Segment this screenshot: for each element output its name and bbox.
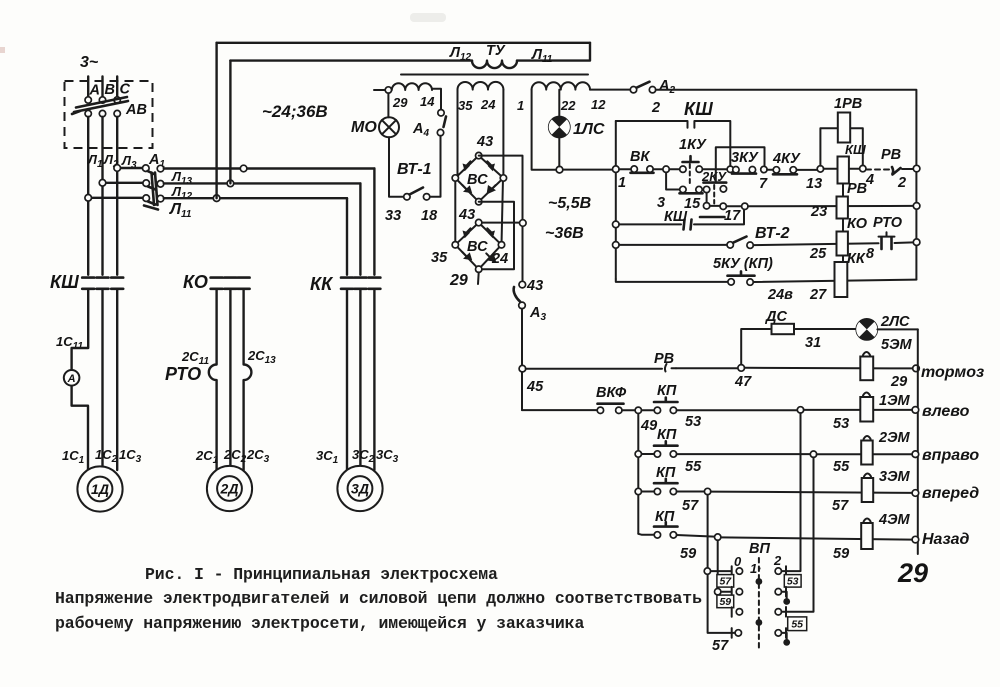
VP right contact 4 bbox=[775, 630, 781, 636]
svg-text:ВТ-1: ВТ-1 bbox=[397, 161, 432, 178]
relay coil 1RV bbox=[838, 113, 850, 143]
switch A3 blade bbox=[514, 287, 520, 302]
svg-text:53: 53 bbox=[685, 414, 701, 430]
resistor DS branch riser bbox=[741, 329, 770, 365]
switch A4 bbox=[438, 110, 444, 116]
contact RTO thermal bbox=[882, 238, 892, 250]
switch A3 lower terminal bbox=[519, 302, 526, 309]
switch VT-2 bbox=[727, 242, 733, 248]
rung3 wire bbox=[726, 205, 741, 207]
svg-text:ВКФ: ВКФ bbox=[596, 385, 627, 401]
57 rung wire bbox=[677, 491, 705, 493]
svg-text:~5,5В: ~5,5В bbox=[548, 195, 591, 212]
relay coil 5KU bbox=[835, 262, 848, 297]
wire phase B stub bbox=[101, 77, 103, 97]
VP right contact 3 bbox=[775, 609, 781, 615]
svg-text:КП: КП bbox=[657, 383, 677, 399]
rung3 wire to right rail bbox=[748, 205, 913, 207]
contact 1KU bbox=[680, 166, 686, 172]
wire KK col2 bbox=[359, 289, 361, 470]
svg-text:КШ: КШ bbox=[50, 272, 79, 292]
contact VKF bbox=[597, 407, 603, 413]
wire DC positive rail bbox=[479, 156, 523, 281]
svg-text:5КУ (КП): 5КУ (КП) bbox=[713, 256, 773, 272]
svg-text:ВК: ВК bbox=[630, 149, 650, 165]
rung1 wire bbox=[653, 168, 663, 170]
wire phase C stub bbox=[116, 77, 118, 97]
wire 59 drop bbox=[717, 540, 719, 588]
svg-text:ВС: ВС bbox=[467, 239, 488, 255]
svg-text:3С1: 3С1 bbox=[316, 448, 339, 466]
svg-text:12: 12 bbox=[591, 97, 606, 112]
VP right contact 1 bbox=[775, 568, 781, 574]
svg-text:4ЭМ: 4ЭМ bbox=[878, 512, 910, 528]
relay coil KK bbox=[837, 232, 848, 256]
svg-text:59: 59 bbox=[719, 596, 731, 608]
wire L13 horizontal bbox=[164, 167, 375, 169]
contact KP (57 rung) bbox=[654, 488, 660, 494]
wire MO branch bbox=[388, 93, 403, 197]
svg-text:2: 2 bbox=[773, 553, 782, 568]
svg-text:55: 55 bbox=[685, 459, 702, 475]
svg-text:57: 57 bbox=[719, 576, 732, 588]
wire L11 horizontal bbox=[164, 197, 347, 199]
lamp 2LS bbox=[856, 319, 877, 340]
scan smudge bbox=[410, 13, 446, 22]
boxed label 57 bbox=[717, 575, 734, 588]
wire bridge2 bottom stub bbox=[477, 272, 480, 284]
svg-text:43: 43 bbox=[526, 278, 543, 294]
wire link L3 to A1 pole1 bbox=[121, 167, 143, 169]
svg-text:РВ: РВ bbox=[654, 351, 674, 367]
rung4 wire to right rail bbox=[753, 242, 913, 245]
svg-text:22: 22 bbox=[560, 98, 576, 113]
svg-text:КК: КК bbox=[847, 251, 866, 267]
wire riser to top bus Л12 bbox=[215, 43, 217, 198]
rectifier VS bridge 2 bbox=[452, 219, 505, 272]
switch AB dashed enclosure bbox=[65, 81, 153, 148]
transformer TU core line bbox=[401, 74, 588, 76]
wire 2KU riser bracket bbox=[716, 147, 765, 182]
boxed label 53 bbox=[784, 575, 801, 588]
svg-text:2: 2 bbox=[651, 100, 660, 116]
svg-text:2ЭМ: 2ЭМ bbox=[878, 430, 910, 446]
coil 1EM bbox=[863, 393, 870, 396]
svg-text:КП: КП bbox=[655, 509, 675, 525]
contact 2KU bbox=[720, 186, 726, 192]
contact KP (59 rung) bbox=[638, 533, 654, 536]
coil 4EM bbox=[864, 519, 871, 522]
svg-text:РТО: РТО bbox=[873, 215, 903, 231]
relay coil KO bbox=[837, 197, 848, 219]
svg-text:29: 29 bbox=[392, 95, 408, 110]
svg-text:53: 53 bbox=[833, 416, 849, 432]
switch AB lower contacts bbox=[85, 110, 91, 116]
59 rung wire bbox=[677, 535, 715, 537]
svg-text:17: 17 bbox=[724, 208, 741, 224]
svg-text:2С1: 2С1 bbox=[195, 448, 219, 466]
wire top bus Л12 bbox=[217, 42, 590, 44]
tormoz rung wire to 47 bbox=[676, 367, 738, 369]
wire phase A stub bbox=[87, 77, 89, 97]
svg-text:2КУ: 2КУ bbox=[701, 169, 727, 184]
svg-text:КП: КП bbox=[657, 427, 677, 443]
svg-text:53: 53 bbox=[787, 576, 799, 588]
contact 3KU bbox=[733, 167, 739, 173]
svg-text:КШ: КШ bbox=[845, 142, 866, 157]
svg-text:29: 29 bbox=[897, 558, 928, 588]
wire bridge bottoms link bbox=[479, 202, 514, 270]
junction 49 bbox=[622, 409, 635, 411]
svg-text:45: 45 bbox=[526, 379, 544, 395]
wire link L1 to A1 pole3 bbox=[92, 197, 144, 199]
winding 35-24 bbox=[458, 82, 504, 90]
rung5 wire to right rail bbox=[753, 280, 916, 282]
wire L3 vertical bbox=[116, 117, 118, 275]
boxed label 59 bbox=[717, 595, 734, 608]
svg-text:1: 1 bbox=[618, 175, 626, 191]
VP cam dashed axis bbox=[758, 558, 760, 648]
wire KSh col2 bbox=[101, 289, 103, 470]
svg-text:29: 29 bbox=[449, 272, 468, 289]
contact RV on tormoz rung bbox=[665, 364, 676, 372]
svg-text:5ЭМ: 5ЭМ bbox=[881, 337, 912, 353]
53 rung wire bbox=[677, 409, 798, 411]
control box top edge with KSh contact gap bbox=[616, 121, 731, 166]
motor 3D bbox=[337, 466, 382, 511]
tormoz rung wire to right rail bbox=[745, 367, 913, 370]
edge mark bbox=[0, 47, 5, 53]
contact KP (53 rung) bbox=[642, 409, 655, 411]
switch VT-1 bbox=[404, 194, 410, 200]
svg-text:2С13: 2С13 bbox=[247, 348, 276, 366]
svg-text:1ЭМ: 1ЭМ bbox=[879, 393, 910, 409]
wire KK col3 drop bbox=[373, 169, 375, 275]
resistor DS bbox=[772, 324, 795, 334]
VP right contact 2 bbox=[775, 589, 781, 595]
contactor KO main contacts bbox=[211, 278, 250, 289]
svg-text:КК: КК bbox=[310, 274, 334, 294]
wire 2LS to right rail 2 bbox=[877, 328, 917, 330]
svg-text:1ЛС: 1ЛС bbox=[573, 121, 605, 138]
mechanical link 2KU dashed bbox=[713, 185, 715, 204]
svg-text:КО: КО bbox=[847, 216, 868, 232]
svg-text:23: 23 bbox=[810, 204, 827, 220]
right rail 2 bbox=[917, 329, 919, 554]
switch AB blade bbox=[74, 101, 128, 112]
svg-text:МО: МО bbox=[351, 119, 377, 136]
svg-text:0: 0 bbox=[734, 554, 742, 569]
wire 57 drop bbox=[708, 495, 736, 633]
svg-text:1С3: 1С3 bbox=[119, 447, 142, 465]
switch AB upper contacts bbox=[85, 97, 91, 103]
switch A1 fixed contacts bbox=[157, 165, 164, 172]
svg-text:3~: 3~ bbox=[80, 54, 99, 71]
svg-text:Рис. I - Принципиальная электр: Рис. I - Принципиальная электросхема bbox=[145, 565, 498, 584]
svg-text:2ЛС: 2ЛС bbox=[880, 314, 910, 330]
wire KO col3 with RTO heater bbox=[244, 289, 252, 470]
contact 4KU bbox=[767, 169, 773, 171]
motor 2D bbox=[207, 466, 252, 511]
contact RV (time) dashed on rung1 bbox=[866, 169, 891, 171]
svg-text:влево: влево bbox=[922, 403, 970, 420]
wire bridge2 top link bbox=[479, 222, 520, 224]
rung1 wire to 13 bbox=[797, 169, 818, 171]
svg-text:2: 2 bbox=[897, 175, 906, 191]
contact 3-15 bbox=[680, 186, 686, 192]
rung5 wire (24v) bbox=[616, 279, 728, 282]
svg-text:49: 49 bbox=[640, 418, 657, 434]
VP left contact 1 bbox=[711, 566, 732, 576]
svg-text:57: 57 bbox=[682, 498, 699, 514]
wire KO col1 with RTO heater bbox=[209, 289, 217, 470]
wire A2 to right rail bbox=[656, 90, 917, 280]
svg-text:1КУ: 1КУ bbox=[679, 137, 707, 153]
svg-text:43: 43 bbox=[458, 207, 475, 223]
wire link L2 to A1 pole2 bbox=[106, 182, 143, 184]
svg-text:55: 55 bbox=[791, 619, 803, 631]
svg-text:1С1: 1С1 bbox=[62, 448, 85, 466]
junction on rung2 bbox=[703, 186, 709, 192]
rung1 wire bbox=[702, 168, 727, 170]
svg-text:24в: 24в bbox=[767, 287, 793, 303]
wire 45 down to VKF rung corner bbox=[521, 372, 523, 410]
svg-text:29: 29 bbox=[890, 374, 907, 390]
svg-text:С: С bbox=[120, 82, 131, 98]
wire winding left leg to bottom wire bbox=[532, 90, 556, 170]
svg-text:14: 14 bbox=[420, 94, 435, 109]
svg-text:3ЭМ: 3ЭМ bbox=[879, 469, 910, 485]
svg-text:Назад: Назад bbox=[922, 531, 970, 548]
svg-text:ВТ-2: ВТ-2 bbox=[755, 225, 790, 242]
wire KK col1 bbox=[346, 289, 348, 470]
rectifier VS bridge 1 bbox=[452, 152, 507, 204]
relay coil column vertical (hidden behind coils) bbox=[842, 172, 844, 280]
KP ladder vertical bbox=[637, 414, 639, 534]
svg-text:вперед: вперед bbox=[922, 485, 979, 502]
rung1 wire bbox=[619, 168, 631, 170]
coil 2EM bbox=[864, 436, 871, 439]
wire AC rail left (35) bbox=[455, 90, 457, 245]
svg-text:7: 7 bbox=[759, 176, 768, 192]
svg-text:РВ: РВ bbox=[847, 181, 867, 197]
svg-text:А2: А2 bbox=[658, 78, 675, 96]
rung1 wire 13 to 4 bbox=[824, 168, 860, 170]
svg-text:КШ: КШ bbox=[684, 99, 713, 119]
wire L12 horizontal bbox=[164, 182, 361, 184]
svg-text:КП: КП bbox=[656, 465, 676, 481]
svg-text:43: 43 bbox=[476, 134, 493, 150]
svg-text:КШ: КШ bbox=[664, 209, 688, 225]
svg-text:3С3: 3С3 bbox=[376, 447, 399, 465]
wire A3 down to node 45 bbox=[521, 309, 523, 366]
svg-text:А3: А3 bbox=[529, 305, 546, 323]
contactor KK main contacts bbox=[341, 278, 380, 289]
svg-text:1Д: 1Д bbox=[91, 481, 109, 497]
svg-text:1С2: 1С2 bbox=[95, 447, 118, 465]
wire KK col2 drop bbox=[359, 183, 361, 274]
junction riser bus2 on L12 bbox=[227, 180, 234, 187]
contact KP (55 rung) bbox=[642, 453, 655, 455]
svg-text:18: 18 bbox=[421, 208, 438, 224]
VKF rung wire bbox=[522, 409, 597, 411]
svg-text:В: В bbox=[105, 82, 115, 98]
svg-text:РВ: РВ bbox=[881, 147, 901, 163]
svg-text:13: 13 bbox=[806, 176, 822, 192]
svg-text:55: 55 bbox=[833, 459, 850, 475]
svg-text:24: 24 bbox=[480, 97, 496, 112]
svg-text:33: 33 bbox=[385, 208, 401, 224]
VP left contact 2 bbox=[721, 587, 732, 597]
svg-text:тормоз: тормоз bbox=[921, 364, 984, 381]
inductor TU primary bumps bbox=[472, 61, 517, 69]
wire bottom wire to left rail bbox=[563, 169, 612, 171]
wire DS to lamp 2LS bbox=[794, 328, 856, 330]
lamp 1LS bbox=[549, 90, 570, 167]
svg-text:Л11: Л11 bbox=[531, 47, 553, 65]
svg-text:1: 1 bbox=[517, 98, 524, 113]
wire KSh-contact branch (rung2b) bbox=[619, 223, 681, 225]
VP left contact 4 bar bbox=[731, 628, 733, 638]
svg-text:ТУ: ТУ bbox=[486, 43, 506, 59]
svg-text:А: А bbox=[89, 83, 100, 99]
switch A1 blade bar bbox=[152, 173, 155, 206]
svg-text:АВ: АВ bbox=[125, 102, 147, 118]
contact 17 bbox=[703, 203, 709, 209]
rung3 drop from rung2 bbox=[706, 193, 708, 203]
contactor KSh main contacts bbox=[82, 278, 123, 289]
svg-text:35: 35 bbox=[431, 250, 448, 266]
wire KSh col3 bbox=[116, 289, 118, 470]
svg-text:ВС: ВС bbox=[467, 172, 488, 188]
svg-text:ДС: ДС bbox=[764, 309, 787, 325]
svg-text:вправо: вправо bbox=[922, 447, 979, 464]
svg-text:57: 57 bbox=[712, 638, 729, 654]
svg-text:24: 24 bbox=[491, 251, 508, 267]
boxed label 55 bbox=[788, 617, 807, 631]
VP left contact 3 bbox=[731, 607, 733, 617]
svg-text:1С11: 1С11 bbox=[56, 334, 83, 352]
wire KK col1 drop bbox=[346, 198, 348, 275]
wire L2 vertical bbox=[101, 117, 103, 275]
relay 1RV coil bracket bbox=[820, 128, 862, 165]
junction riser bus1 on L13 bbox=[240, 165, 247, 172]
wire KK col3 bbox=[373, 289, 375, 470]
wire AC rail right (24) bbox=[502, 90, 504, 245]
tormoz rung wire bbox=[526, 368, 662, 370]
svg-text:рабочему напряжению электросет: рабочему напряжению электросети, имеющей… bbox=[55, 614, 584, 633]
svg-text:47: 47 bbox=[734, 374, 752, 390]
junction riser bus3 on L11 bbox=[213, 195, 220, 202]
svg-text:31: 31 bbox=[805, 335, 821, 351]
winding 29-14 bbox=[374, 89, 385, 91]
relay coil RV bbox=[838, 157, 849, 184]
svg-text:2С3: 2С3 bbox=[246, 447, 270, 465]
svg-text:57: 57 bbox=[832, 498, 849, 514]
winding 1-22-12 bbox=[532, 82, 590, 89]
control box left rail bbox=[615, 121, 617, 279]
svg-text:ВП: ВП bbox=[749, 541, 770, 557]
svg-text:Напряжение электродвигателей и: Напряжение электродвигателей и силовой ц… bbox=[55, 589, 702, 608]
svg-text:А4: А4 bbox=[412, 121, 429, 139]
svg-text:59: 59 bbox=[680, 546, 696, 562]
svg-text:3КУ: 3КУ bbox=[731, 150, 759, 166]
svg-text:РТО: РТО bbox=[165, 364, 201, 384]
wire top bus Л11 with TU primary winding bbox=[230, 59, 472, 61]
contact 5KU(KP) bbox=[728, 279, 734, 285]
svg-text:8: 8 bbox=[866, 246, 875, 262]
rung2 branch from rung1 bbox=[666, 172, 680, 189]
rung1 wire to right rail bbox=[902, 168, 913, 170]
svg-text:Л12: Л12 bbox=[449, 45, 472, 63]
svg-text:3Д: 3Д bbox=[351, 481, 369, 497]
wire A4 to VT-1 bbox=[430, 136, 441, 197]
svg-text:2Д: 2Д bbox=[220, 481, 239, 497]
wire vlevo drop (53) bbox=[787, 413, 801, 571]
coil 3EM bbox=[864, 474, 871, 477]
wire vpravo drop (55) bbox=[782, 457, 814, 611]
ammeter A bbox=[64, 370, 80, 386]
svg-text:КО: КО bbox=[183, 272, 208, 292]
switch A2 bbox=[590, 89, 630, 91]
svg-text:27: 27 bbox=[809, 287, 827, 303]
motor 1D bbox=[77, 466, 122, 511]
wire riser to top bus Л11 bbox=[229, 61, 231, 184]
svg-text:59: 59 bbox=[833, 546, 849, 562]
coil 5EM bbox=[863, 352, 870, 355]
svg-text:~24;36В: ~24;36В bbox=[262, 102, 328, 121]
svg-text:25: 25 bbox=[809, 246, 827, 262]
svg-text:1РВ: 1РВ bbox=[834, 96, 862, 112]
svg-text:Л11: Л11 bbox=[169, 201, 192, 220]
svg-text:А: А bbox=[67, 373, 76, 385]
contact VK bbox=[631, 166, 637, 172]
wire KO col2 bbox=[229, 289, 231, 470]
55 rung wire bbox=[677, 453, 811, 455]
svg-text:4КУ: 4КУ bbox=[772, 151, 801, 167]
svg-text:~36В: ~36В bbox=[545, 225, 584, 242]
svg-text:35: 35 bbox=[458, 98, 473, 113]
wire L1 vertical bbox=[87, 117, 89, 275]
wire KSh col1 with ammeter jog bbox=[72, 289, 89, 470]
switch A1 moving contacts bbox=[143, 165, 150, 172]
rung4 VT-2 wire bbox=[619, 244, 727, 246]
svg-text:3С2: 3С2 bbox=[352, 447, 375, 465]
node 43 terminal (A3) bbox=[519, 281, 526, 288]
lamp MO bbox=[379, 117, 399, 137]
mechanical link 1KU dashed bbox=[689, 164, 691, 186]
